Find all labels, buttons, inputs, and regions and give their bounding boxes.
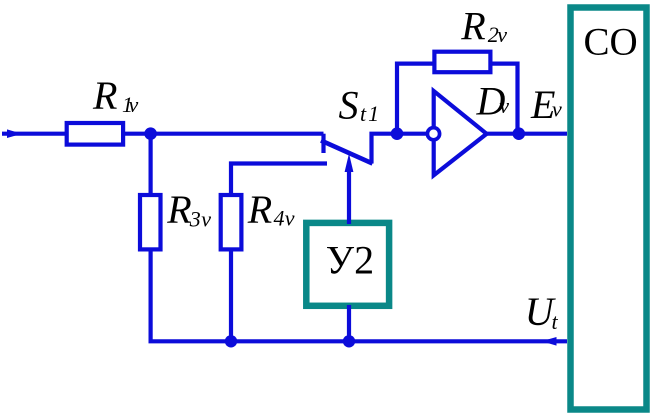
svg-text:3v: 3v bbox=[189, 207, 212, 232]
svg-text:У2: У2 bbox=[326, 238, 374, 283]
svg-text:t: t bbox=[552, 309, 559, 334]
svg-text:v: v bbox=[499, 93, 509, 118]
svg-text:R: R bbox=[460, 4, 485, 49]
svg-text:v: v bbox=[552, 97, 562, 122]
svg-text:S: S bbox=[339, 83, 359, 128]
svg-text:2v: 2v bbox=[488, 22, 508, 47]
svg-text:R: R bbox=[92, 73, 117, 118]
svg-text:4v: 4v bbox=[274, 206, 295, 231]
svg-text:R: R bbox=[247, 187, 272, 232]
svg-text:t1: t1 bbox=[360, 101, 381, 126]
svg-text:СО: СО bbox=[584, 21, 638, 64]
svg-text:R: R bbox=[166, 187, 191, 232]
